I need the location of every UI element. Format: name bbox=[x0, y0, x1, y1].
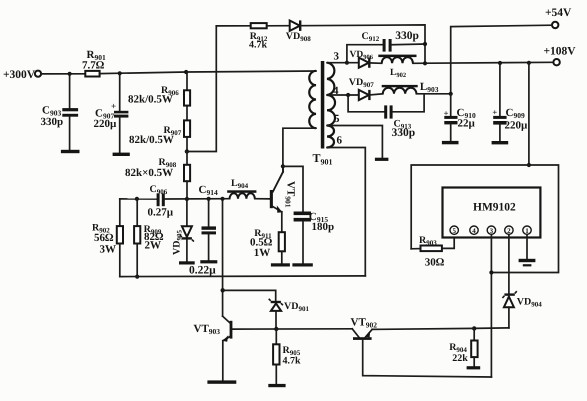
node +300V terminal bbox=[3, 69, 41, 81]
ground pin1 bbox=[519, 259, 536, 267]
node junction tap3/C912 bbox=[345, 61, 349, 65]
resistor R904 22k bbox=[449, 328, 477, 366]
wire R906 to R907 bbox=[186, 106, 188, 121]
node junction VD908 path on +108V rail bbox=[423, 61, 427, 65]
wire VT902 right lead to pin4 junction bbox=[372, 328, 474, 329]
wire tap 5 to ground bbox=[327, 126, 382, 158]
wire tap 4 bbox=[327, 94, 359, 96]
svg-text:5: 5 bbox=[452, 227, 456, 235]
svg-text:82k/0.5W: 82k/0.5W bbox=[128, 94, 173, 106]
wire VT901 collector riser bbox=[282, 166, 284, 172]
svg-text:7.7Ω: 7.7Ω bbox=[82, 60, 105, 72]
node junction pin3/outer box bbox=[489, 270, 493, 274]
ground C915 bbox=[292, 263, 312, 266]
wire VT903 collector riser bbox=[222, 199, 224, 316]
wire base line VT903 to VT902 bbox=[232, 328, 352, 330]
svg-text:330p: 330p bbox=[392, 127, 416, 139]
ground C914 bbox=[200, 260, 217, 263]
ground R911 bbox=[271, 263, 290, 266]
capacitor C915 bbox=[283, 166, 334, 263]
wire pin1 to ground bbox=[526, 235, 528, 259]
node junction R909 top bbox=[135, 197, 139, 201]
wire pin3 down bbox=[490, 235, 492, 378]
svg-text:330p: 330p bbox=[41, 116, 64, 128]
diode VD905 zener bbox=[172, 199, 194, 261]
ground C903 bbox=[61, 150, 80, 153]
node junction VT903 riser bbox=[220, 197, 224, 201]
ground C909 bbox=[492, 141, 509, 144]
node junction R908/VD905 bbox=[185, 197, 189, 201]
pin 3 bbox=[487, 226, 495, 235]
svg-text:22k: 22k bbox=[452, 353, 468, 364]
svg-text:+: + bbox=[111, 101, 116, 111]
node +54V terminal bbox=[545, 7, 572, 28]
svg-text:6: 6 bbox=[337, 135, 343, 147]
node junction R906 bbox=[184, 70, 188, 74]
wire tap 6 down to bus bbox=[327, 148, 365, 276]
resistor R906 bbox=[128, 72, 190, 106]
node junction C907 bbox=[118, 71, 122, 75]
svg-text:22µ: 22µ bbox=[458, 118, 476, 130]
wire bus (oscillator return) bbox=[120, 275, 365, 278]
capacitor C913 bbox=[348, 94, 424, 139]
wire +108V rail to HM9102 outer box bbox=[528, 63, 530, 165]
pin 2 bbox=[505, 226, 513, 235]
wire C906 line left segment bbox=[120, 198, 157, 200]
resistor R902 bbox=[92, 199, 123, 277]
node junction VD901 branch bbox=[221, 288, 225, 292]
inductor L902 bbox=[378, 55, 416, 79]
capacitor C906 bbox=[148, 184, 174, 219]
resistor R901 bbox=[82, 49, 106, 76]
wire L902 to +108V terminal bbox=[413, 62, 554, 63]
wire +54V to L903 output bbox=[451, 25, 552, 94]
ground C910 bbox=[442, 141, 459, 144]
svg-text:30Ω: 30Ω bbox=[425, 257, 445, 269]
svg-text:220µ: 220µ bbox=[94, 118, 118, 130]
resistor R909 bbox=[134, 199, 164, 277]
pin 1 bbox=[523, 226, 531, 235]
wire VT903 emitter to ground bbox=[222, 341, 224, 381]
transformer T901 secondary winding bbox=[327, 63, 335, 148]
node +108V terminal bbox=[544, 46, 577, 66]
node junction HM9102 feed bbox=[527, 61, 531, 65]
ground VT903 bbox=[207, 380, 236, 383]
svg-text:+108V: +108V bbox=[544, 46, 577, 58]
wire pin2 to VD904 bbox=[508, 235, 510, 295]
svg-text:2W: 2W bbox=[145, 240, 162, 252]
ground C907 bbox=[113, 153, 130, 156]
node junction on outer box top bbox=[527, 163, 531, 167]
transformer T901 core bbox=[321, 61, 325, 149]
transistor VT902 bbox=[351, 317, 378, 340]
wire R907 bottom to junction bbox=[186, 137, 188, 152]
diode VD904 zener bbox=[502, 291, 542, 328]
capacitor C903 bbox=[41, 74, 79, 150]
pin 4 bbox=[470, 226, 478, 235]
node junction R909 bus bbox=[135, 275, 139, 279]
transformer T901 primary winding bbox=[309, 71, 316, 128]
node junction C914 top bbox=[207, 197, 211, 201]
ground R904 bbox=[467, 366, 481, 369]
transistor VT901 bbox=[270, 172, 297, 213]
inductor L904 bbox=[227, 178, 256, 199]
svg-text:330p: 330p bbox=[395, 30, 419, 42]
svg-text:180p: 180p bbox=[312, 221, 335, 233]
svg-text:0.22µ: 0.22µ bbox=[189, 264, 216, 276]
capacitor C907 bbox=[94, 73, 129, 152]
wire top line left segment bbox=[216, 25, 250, 27]
wire VD904 to pin4 junction bbox=[474, 327, 509, 330]
wire outer box to R903 bbox=[411, 248, 420, 250]
svg-text:3: 3 bbox=[334, 51, 340, 63]
transistor VT903 bbox=[194, 316, 233, 342]
svg-text:4: 4 bbox=[472, 227, 476, 235]
node junction L903/+54V/C910 bbox=[449, 92, 453, 96]
node junction R907/R908 bbox=[185, 149, 189, 153]
wire primary bottom to VT901 collector bbox=[273, 128, 316, 191]
inductor L903 bbox=[382, 81, 439, 94]
svg-text:56Ω: 56Ω bbox=[94, 232, 114, 244]
node junction VD901/R905/base line bbox=[274, 327, 278, 331]
diode VD906 bbox=[350, 50, 374, 68]
wire VD907 to L903 bbox=[369, 94, 382, 95]
wire tap 3 bbox=[327, 62, 359, 64]
svg-text:+300V: +300V bbox=[3, 69, 36, 81]
wire VT902 bottom lead bbox=[363, 340, 492, 377]
wire VD901 branch horizontal bbox=[223, 290, 276, 300]
resistor R903 bbox=[419, 235, 445, 269]
node junction C909 bbox=[498, 61, 502, 65]
pin 5 bbox=[450, 226, 458, 235]
resistor R908 bbox=[125, 152, 190, 200]
svg-text:0.27µ: 0.27µ bbox=[148, 207, 174, 219]
wire junction to top line (vertical riser) bbox=[187, 26, 216, 152]
resistor R911 bbox=[250, 212, 285, 263]
wire HM9102 outer box bbox=[411, 165, 558, 273]
wire L903 to +54V junction bbox=[416, 93, 450, 95]
wire VD906 to L902 bbox=[369, 62, 381, 64]
svg-text:4.7k: 4.7k bbox=[283, 355, 302, 366]
diode VD908 bbox=[286, 20, 311, 42]
ground VD905 bbox=[179, 261, 195, 264]
capacitor C912 bbox=[347, 30, 425, 63]
svg-text:+: + bbox=[492, 107, 497, 117]
wire R912 to VD908 bbox=[267, 25, 290, 27]
ground R905 bbox=[268, 384, 285, 387]
svg-text:4.7k: 4.7k bbox=[249, 40, 268, 51]
wire VD908 to +108V rail drop bbox=[300, 25, 425, 63]
resistor R907 bbox=[129, 120, 190, 146]
node junction C903 bbox=[68, 72, 72, 76]
wire +300V rail bbox=[41, 73, 85, 75]
svg-text:3W: 3W bbox=[100, 243, 117, 255]
svg-text:82k×0.5W: 82k×0.5W bbox=[125, 167, 173, 179]
diode VD907 bbox=[349, 77, 374, 100]
wire pin5 to R903 bbox=[442, 238, 454, 249]
diode VD901 zener bbox=[269, 299, 310, 329]
svg-text:5: 5 bbox=[334, 113, 340, 125]
capacitor C909 bbox=[492, 63, 528, 141]
resistor R905 bbox=[273, 329, 301, 384]
wire +300V rail continues to transformer primary bbox=[100, 71, 316, 74]
svg-text:220µ: 220µ bbox=[505, 119, 529, 131]
capacitor C910 bbox=[444, 94, 476, 141]
resistor R912 bbox=[249, 23, 268, 50]
wire L904 to VT901 base bbox=[255, 198, 270, 200]
capacitor C914 bbox=[189, 184, 218, 276]
ground tap5 bbox=[375, 158, 389, 161]
node junction tap4/C913 bbox=[346, 93, 350, 97]
wire C906 to L904 bbox=[165, 198, 230, 200]
node junction C912/+108 riser bbox=[423, 42, 427, 46]
op-amp U1 HM9102 box bbox=[443, 188, 541, 238]
svg-text:+54V: +54V bbox=[545, 7, 572, 19]
node junction pin4/VT902 line bbox=[472, 326, 476, 330]
svg-text:1W: 1W bbox=[254, 247, 271, 259]
node junction collector/C915 bbox=[281, 164, 285, 168]
svg-text:HM9102: HM9102 bbox=[473, 202, 516, 214]
svg-text:82k/0.5W: 82k/0.5W bbox=[129, 134, 174, 146]
